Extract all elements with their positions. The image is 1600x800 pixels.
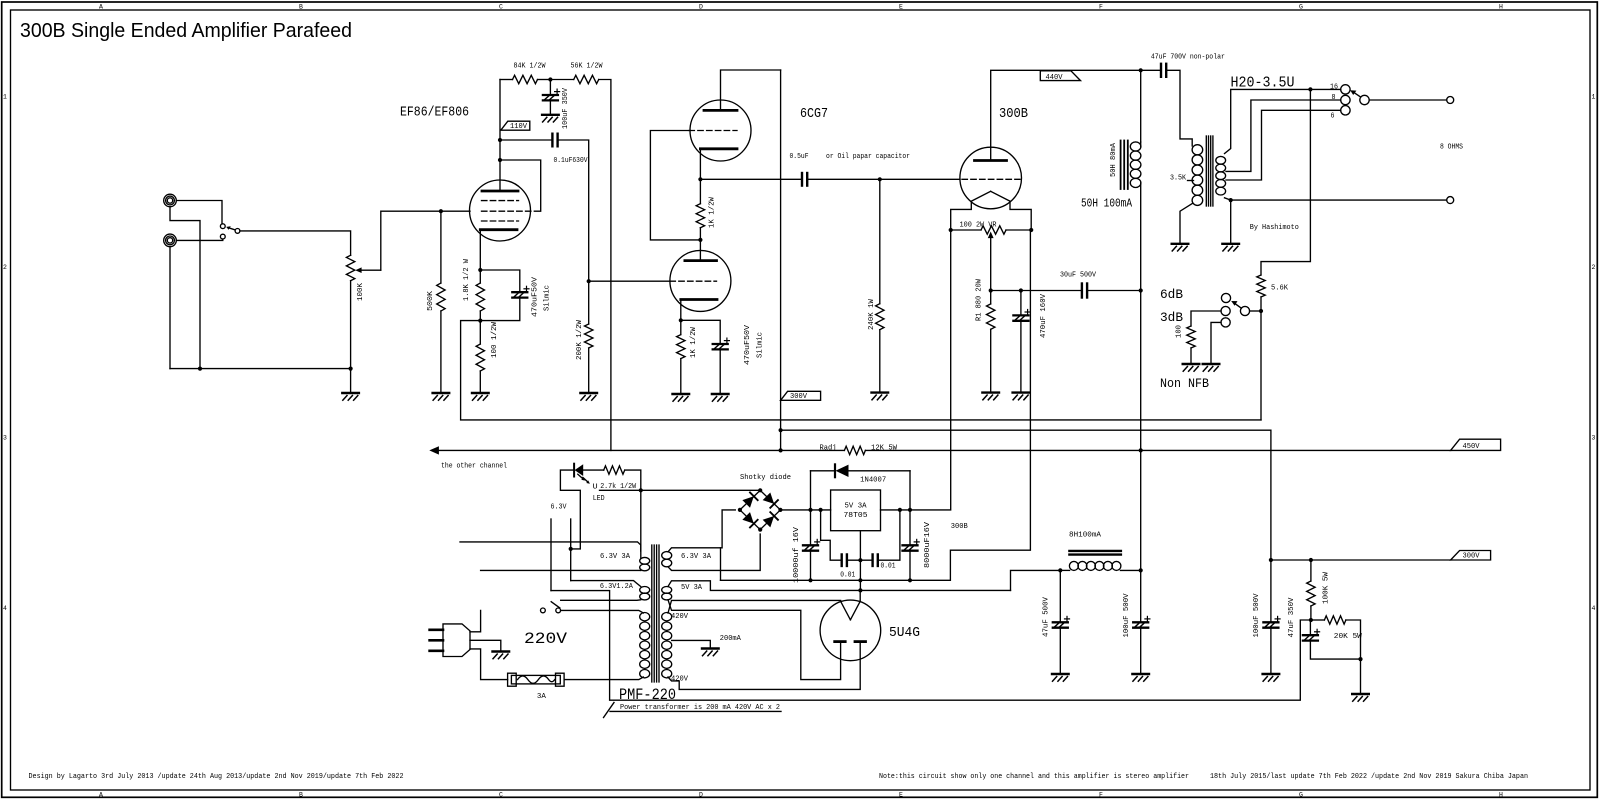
svg-text:E: E (899, 4, 903, 11)
capacitor 8000uF16V (903, 539, 920, 550)
label Radj (820, 445, 837, 453)
speaker tap selector circles (1341, 85, 1370, 115)
svg-text:B: B (299, 791, 303, 798)
wire 47uF500V to ground (1059, 628, 1061, 674)
resistor 240K 1W grid leak (876, 304, 884, 330)
junction (858, 588, 862, 592)
PMF-220 winding 5V 3A (662, 587, 672, 600)
label 8H100mA (1069, 531, 1102, 539)
wire cathode node to 1K (699, 179, 701, 203)
6CG7 upper plate (704, 109, 737, 112)
wire 450V bus left (438, 449, 844, 451)
junction (498, 138, 502, 142)
ground 240K (872, 393, 889, 400)
wire 420V bottom lead to 5U4G (668, 643, 860, 689)
resistor 1K 1/2W upper cathode (696, 204, 704, 228)
wire plug hot to switch (470, 610, 481, 631)
tube 300B envelope (960, 147, 1022, 209)
wire 6.3V right bottom lead to bridge (668, 534, 760, 570)
svg-text:500K: 500K (427, 290, 435, 311)
label 300B (999, 107, 1028, 122)
wire coupling cap to 6CG7 grid (558, 140, 589, 281)
junction (738, 508, 742, 512)
label 100uF 500V (1123, 593, 1131, 638)
svg-text:G: G (1299, 4, 1303, 11)
wire 6.3V left bottom lead (481, 569, 641, 571)
wire 420V center tap (672, 640, 711, 648)
svg-text:1: 1 (3, 94, 7, 101)
node flag 300V (781, 391, 821, 401)
label 6.3V 3A right (681, 553, 712, 561)
junction (779, 428, 783, 432)
wire 30uF to choke bottom (1087, 290, 1141, 292)
EF86 plate (482, 190, 518, 193)
label U (593, 484, 598, 492)
svg-text:Radj: Radj (820, 445, 837, 453)
svg-text:100 2W VR: 100 2W VR (960, 222, 998, 230)
transformer PMF-220 core (652, 545, 659, 682)
svg-text:5.6K: 5.6K (1271, 285, 1289, 293)
junction (1139, 68, 1143, 72)
svg-text:8: 8 (1332, 94, 1336, 102)
wire primary top lead (561, 610, 644, 613)
pin label 6 (1331, 112, 1335, 120)
capacitor 0.01 input (842, 554, 847, 566)
300B plate (975, 159, 1007, 162)
300B grid (962, 178, 1020, 180)
svg-text:3: 3 (1592, 435, 1596, 442)
6CG7 lower cathode (681, 298, 717, 301)
label 100 (1176, 325, 1184, 338)
wire to 100uF500V (1140, 570, 1142, 622)
svg-text:18th July 2015/last update 7th: 18th July 2015/last update 7th Feb 2022 … (1210, 773, 1528, 781)
wire EF86 cathode lead (479, 230, 481, 270)
label 20K 5W (1334, 633, 1363, 641)
wire 6.3V1.2A top lead (571, 581, 641, 587)
svg-text:D: D (699, 791, 703, 798)
svg-text:Design by Lagarto 3rd July 201: Design by Lagarto 3rd July 2013 /update … (29, 773, 404, 781)
label 3A (537, 693, 547, 701)
junction (1229, 198, 1233, 202)
wire 100K to divider node (1310, 606, 1312, 620)
wire OPT secondary 6 tap (1226, 110, 1341, 180)
resistor 100 feedback divider (1187, 326, 1195, 348)
wire 47uF350V to ground node (1310, 641, 1360, 660)
svg-text:Silmic: Silmic (544, 285, 552, 311)
junction (439, 209, 443, 213)
junction (1139, 568, 1143, 572)
svg-text:3dB: 3dB (1160, 310, 1183, 325)
label 3dB (1160, 310, 1183, 325)
svg-text:47uF 700V non-polar: 47uF 700V non-polar (1151, 54, 1225, 62)
wire filament left leg (951, 201, 972, 230)
junction (1259, 309, 1263, 313)
wire LED anode to 2.7k (583, 469, 604, 471)
junction (639, 488, 643, 492)
ground 100uF (542, 115, 559, 122)
ground mains earth (493, 652, 510, 659)
label H20-3.5U (1231, 75, 1295, 91)
wire primary bottom lead (564, 677, 643, 680)
svg-text:10000uf 16V: 10000uf 16V (793, 526, 801, 583)
svg-text:A: A (99, 791, 103, 798)
ground input (342, 393, 359, 400)
capacitor 47uF 700V non-polar (1161, 64, 1166, 77)
label 0.01 input (840, 572, 855, 580)
node flag 440V (1040, 71, 1080, 82)
wire 2.7k to winding (625, 470, 641, 551)
label 47uF 350V (1288, 597, 1296, 638)
junction (1358, 657, 1362, 661)
pin label 16 (1330, 84, 1338, 92)
wire 47uF to OPT primary (1166, 70, 1192, 146)
wire ground node down (1360, 659, 1362, 694)
wire 6.3V1.2A bottom lead (561, 599, 641, 602)
svg-text:6dB: 6dB (1160, 287, 1183, 302)
label LED (593, 495, 605, 503)
ground OPT primary (1172, 244, 1189, 251)
wire grid node to 6CG7 (589, 280, 670, 282)
label R1 880 20W (976, 278, 984, 321)
capacitor 0.1uF630V coupling (552, 134, 557, 147)
svg-text:Silmic: Silmic (757, 332, 765, 358)
tube EF86 envelope (470, 180, 531, 241)
NFB selector switch (1221, 293, 1250, 327)
junction (1308, 87, 1312, 91)
svg-text:By Hashimoto: By Hashimoto (1250, 224, 1299, 232)
svg-text:or Oil papar capacitor: or Oil papar capacitor (826, 153, 910, 161)
svg-text:110V: 110V (510, 123, 528, 131)
5U4G filament (841, 601, 861, 620)
label PMF-220 (619, 686, 676, 704)
svg-text:U: U (593, 484, 598, 492)
fuse 3A (508, 673, 564, 686)
wire 300V node down (1270, 560, 1272, 622)
svg-text:30uF 500V: 30uF 500V (1060, 271, 1097, 279)
junction (548, 77, 552, 81)
RCA input jack J1 (164, 194, 177, 207)
label 12K 5W (871, 445, 898, 453)
svg-text:240K 1W: 240K 1W (868, 298, 876, 330)
OPT core (1206, 136, 1213, 206)
label the other channel (441, 462, 507, 470)
wire pot bottom to ground bus (350, 281, 352, 369)
resistor 100 1/2W (476, 344, 484, 371)
wire plate to 84K (500, 79, 513, 81)
svg-text:G: G (1299, 791, 1303, 798)
wire cathode node right (991, 290, 1021, 292)
svg-text:0.01: 0.01 (840, 572, 855, 580)
node flag 110V (501, 121, 530, 131)
wire lower 1K to ground (680, 359, 682, 394)
diode 1N4007 protection (811, 464, 911, 510)
junction (698, 177, 702, 181)
label 1K 1/2W lower (690, 326, 698, 358)
svg-text:420V: 420V (671, 613, 689, 621)
wire B+ node to 47uF500V (1059, 570, 1061, 622)
label Silmic (544, 285, 552, 311)
ground 500K (433, 393, 450, 400)
wire 450V bus right (865, 449, 1450, 451)
wire 5V top lead to 5U4G filament (668, 581, 1011, 591)
svg-text:470uF50V: 470uF50V (532, 276, 540, 317)
junction (898, 508, 902, 512)
arrow to other channel (429, 446, 439, 454)
label 240K 1W (868, 298, 876, 330)
wire J2 sleeve to ground bus (169, 247, 171, 369)
resistor 5.6K feedback (1257, 275, 1265, 297)
svg-text:470uF50V: 470uF50V (744, 324, 752, 365)
wire 300V to 100K (1310, 560, 1312, 581)
wire bypass cap branch (480, 270, 520, 292)
wire choke to 450V bus (1140, 291, 1142, 451)
ground 200K (580, 393, 597, 400)
wire selector to output terminal (1369, 99, 1447, 101)
capacitor 30uF 500V parafeed (1082, 284, 1087, 298)
svg-text:0.01: 0.01 (881, 563, 896, 571)
label 200mA (720, 635, 742, 643)
heater stub A (550, 519, 552, 591)
wire selector to volume pot (240, 231, 351, 255)
capacitor 0.5uF interstage (802, 173, 807, 186)
EF86 grids (482, 201, 541, 221)
wire 100R to ground (1190, 348, 1192, 364)
svg-text:100 1/2W: 100 1/2W (491, 321, 499, 358)
capacitor 47uF 350V heater bias (1303, 629, 1320, 640)
label oil paper note (826, 153, 910, 161)
wire 450V bus to 8H choke node (1140, 450, 1142, 570)
svg-text:5V 3A: 5V 3A (681, 584, 703, 592)
wire divider node to 47uF350V (1309, 620, 1311, 635)
junction (778, 508, 782, 512)
PMF-220 winding 220V primary (640, 613, 650, 678)
wire upper cathode lead (699, 149, 701, 180)
wire NFB return to cathode (461, 321, 1261, 420)
svg-text:300B: 300B (951, 523, 969, 531)
wire upper grid to lower plate node (650, 131, 700, 240)
300B filament (971, 191, 1010, 201)
wire to 10000uF (810, 510, 812, 545)
resistor 20K 5W divider (1324, 616, 1346, 624)
label 500K (427, 290, 435, 311)
svg-text:B: B (299, 4, 303, 11)
capacitor 0.01 output (873, 554, 878, 566)
svg-text:3A: 3A (537, 693, 547, 701)
wire cathode to 1.8K (479, 270, 481, 283)
svg-text:5U4G: 5U4G (889, 626, 920, 641)
wire filament return bus (721, 230, 1031, 580)
note stereo (879, 773, 1189, 781)
transformer OPT secondary winding (1216, 156, 1226, 195)
wire 200K to ground (588, 348, 590, 393)
junction (679, 318, 683, 322)
wire OPT primary bottom to ground (1180, 204, 1192, 244)
junction (498, 158, 502, 162)
wire 10000uF to return bus (810, 551, 812, 581)
capacitor 100uF 350V decoupling (543, 89, 560, 100)
junction (808, 508, 812, 512)
svg-text:the other channel: the other channel (441, 462, 507, 470)
svg-text:4: 4 (1592, 605, 1596, 612)
svg-text:2: 2 (1592, 264, 1596, 271)
wire 300V feed to right (781, 430, 1271, 560)
wire bypass cap to junction (480, 298, 520, 321)
resistor 2.7k 1/2W LED (604, 466, 625, 474)
svg-text:F: F (1099, 4, 1103, 11)
label 47uF 700V non-polar (1151, 54, 1225, 62)
wire 5V bottom lead to 5U4G plate (668, 600, 841, 680)
wire cathode node to lower 1K (680, 320, 682, 334)
wire J1 tip to selector (176, 201, 222, 224)
wire common node to NFB bus (1260, 311, 1262, 420)
ground EF86 cathode (472, 393, 489, 400)
junction (858, 578, 862, 582)
svg-text:100K: 100K (357, 282, 365, 301)
label 3.5K (1170, 175, 1187, 183)
tube 5U4G envelope (820, 600, 881, 661)
label 470uF50V 6CG7 (744, 324, 752, 365)
svg-text:300B Single Ended Amplifier P: 300B Single Ended Amplifier Parafeed (20, 19, 352, 42)
6CG7 lower grid (670, 280, 717, 282)
junction (1309, 618, 1313, 622)
svg-text:1: 1 (1592, 94, 1596, 101)
wire node to 56K (550, 79, 573, 81)
wire switch common to node (1250, 310, 1261, 312)
svg-text:D: D (699, 4, 703, 11)
potentiometer 100 2W VR element (981, 226, 1006, 234)
wire 100uF500V to ground (1140, 628, 1142, 674)
wire bridge AC leg down (720, 548, 722, 581)
input selector switch SW1 (220, 224, 240, 239)
wire Non NFB tap to ground (1211, 322, 1221, 364)
note power transformer (604, 703, 782, 718)
svg-text:8H100mA: 8H100mA (1069, 531, 1102, 539)
junction (878, 177, 882, 181)
wire 1.8K to junction (479, 311, 481, 321)
wire bridge out to regulator (780, 509, 830, 511)
junction (587, 279, 591, 283)
wire OPT secondary 16 tap (1225, 89, 1341, 153)
svg-text:20K 5W: 20K 5W (1334, 633, 1363, 641)
svg-text:0.5uF: 0.5uF (790, 153, 809, 161)
svg-text:6CG7: 6CG7 (800, 107, 828, 122)
junction (1139, 288, 1143, 292)
transformer OPT primary winding 3.5K (1192, 145, 1203, 206)
label 220V (524, 630, 568, 648)
junction (989, 288, 993, 292)
resistor 84K 1/2W (513, 75, 538, 83)
label 2.7k 1/2W (600, 483, 637, 491)
label 0.01 output (881, 563, 896, 571)
wire wiper to EF86 grid (381, 211, 470, 270)
capacitor 100uF 500V second (1263, 616, 1280, 627)
wire pot to ground symbol (350, 369, 352, 393)
svg-text:50H 80mA: 50H 80mA (1110, 142, 1118, 177)
wire filament right leg (1010, 201, 1031, 230)
junction (908, 508, 912, 512)
junction (858, 558, 862, 562)
svg-text:6.3V 3A: 6.3V 3A (600, 553, 631, 561)
ground 47uF500V (1052, 674, 1069, 681)
wire 240K to ground (879, 330, 881, 393)
ground 6CG7 cathode (673, 394, 690, 401)
wire 6.3V left top lead (460, 542, 641, 551)
bridge rectifier Schottky diodes (740, 490, 781, 529)
junction (908, 578, 912, 582)
wire 420V top lead to 5U4G (668, 600, 841, 613)
6CG7 upper cathode (700, 147, 737, 150)
wire 0.01 cap2 to out (878, 510, 900, 560)
wire 100uF to ground (549, 100, 551, 114)
junction (478, 268, 482, 272)
wire regulator out to 300B filament (881, 230, 951, 510)
wire plug neutral to fuse (470, 649, 508, 680)
label 6CG7 (800, 107, 828, 122)
wire lower plate lead (699, 240, 701, 261)
svg-text:12K 5W: 12K 5W (871, 445, 898, 453)
label 1K 1/2W upper (709, 196, 717, 228)
ground 420V CT (702, 649, 719, 656)
6CG7 lower plate (685, 259, 717, 262)
wire 0.01 junction (847, 559, 873, 561)
wire plug earth (470, 640, 501, 651)
label 6.3V 3A left (600, 553, 631, 561)
svg-text:100K 5W: 100K 5W (1323, 571, 1331, 604)
wire junction to 100R (479, 321, 481, 344)
svg-text:6.3V 3A: 6.3V 3A (681, 553, 712, 561)
wire wiper node to R1 (990, 291, 992, 304)
svg-text:2: 2 (3, 264, 7, 271)
wire LED cathode return (560, 470, 580, 549)
label 56K 1/2W (571, 62, 604, 70)
label Shotky diode (740, 474, 791, 482)
svg-text:300V: 300V (790, 393, 808, 401)
label 420V bottom (671, 676, 689, 684)
svg-text:450V: 450V (1463, 443, 1481, 451)
junction (819, 508, 823, 512)
wire to cathode bypass cap (681, 320, 720, 344)
svg-text:200mA: 200mA (720, 635, 742, 643)
ground 100uF500V second (1263, 674, 1280, 681)
tube 6CG7 upper triode envelope (690, 100, 751, 161)
svg-text:H: H (1499, 791, 1503, 798)
svg-text:200K 1/2W: 200K 1/2W (576, 319, 584, 360)
RCA input jack J2 (164, 234, 177, 247)
label 10000uf 16V (793, 526, 801, 583)
label Silmic 6CG7 (757, 332, 765, 358)
wire OPT secondary 8 tap (1226, 100, 1341, 171)
wire 16 tap to 5.6K (1261, 89, 1310, 275)
ground OPT secondary (1222, 244, 1239, 251)
wire 56K to B+ riser (599, 80, 611, 451)
label 5U4G (889, 626, 920, 641)
junction (758, 528, 762, 532)
junction (478, 319, 482, 323)
wire 300V line (1271, 559, 1451, 561)
label 5.6K (1271, 285, 1289, 293)
svg-text:6.3V: 6.3V (551, 504, 568, 512)
svg-text:78T05: 78T05 (844, 512, 868, 520)
label 50H 100mA (1081, 198, 1132, 211)
choke 50H 100mA plate choke (1121, 70, 1141, 290)
label 6.3V (551, 504, 568, 512)
wire to 0.01 cap1 (821, 510, 842, 560)
note dates (1210, 773, 1528, 781)
wire 300V riser (780, 70, 782, 450)
resistor 500K grid leak (437, 283, 445, 311)
mains switch (541, 602, 561, 613)
output terminal - (1447, 197, 1454, 204)
